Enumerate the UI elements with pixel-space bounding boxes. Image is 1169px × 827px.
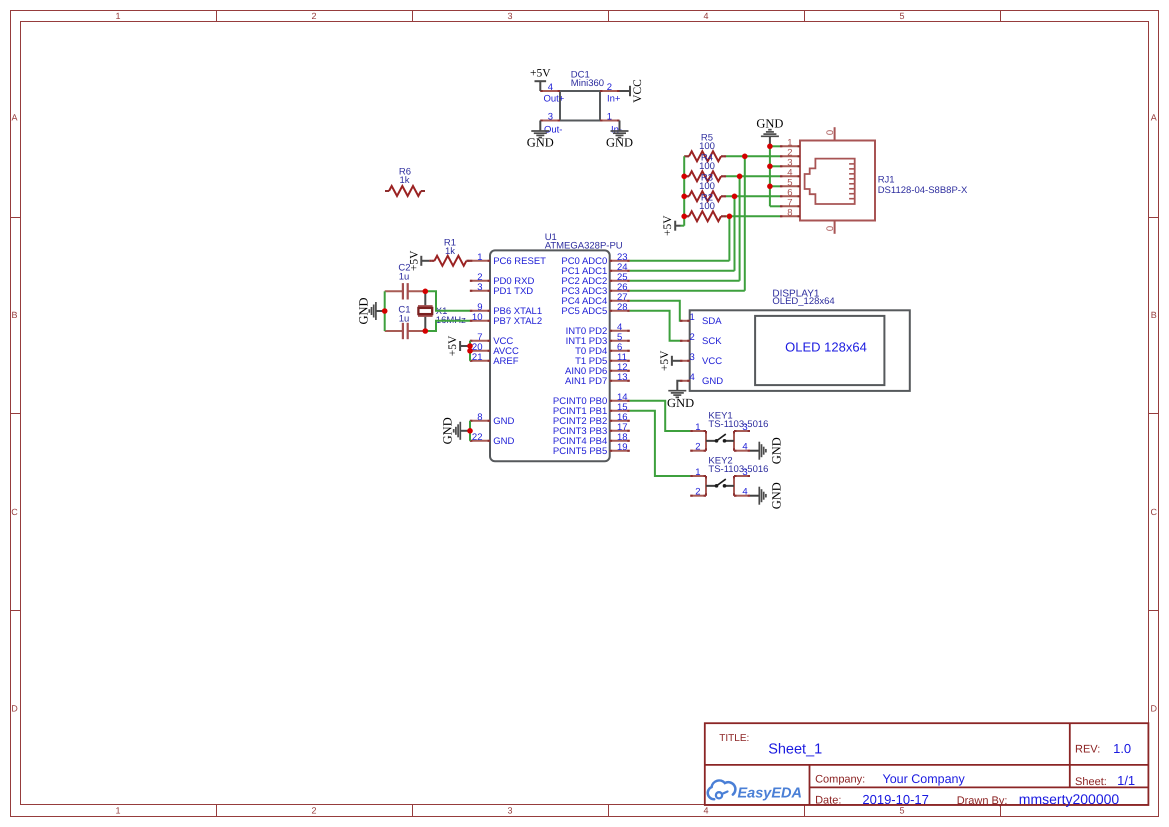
U1 pin 19 PCINT5 PB5	[553, 442, 630, 457]
svg-text:1: 1	[690, 312, 695, 323]
svg-text:22: 22	[472, 432, 483, 443]
svg-text:GND: GND	[770, 482, 784, 509]
ground at C1/C2 left	[356, 297, 384, 324]
svg-text:EasyEDA: EasyEDA	[738, 786, 802, 802]
U1 pin 24 PC1 ADC1	[561, 262, 629, 277]
title block	[705, 723, 1149, 807]
svg-text:5: 5	[899, 11, 904, 21]
svg-text:Mini360: Mini360	[571, 78, 604, 89]
svg-text:SCK: SCK	[702, 336, 722, 347]
wire from U1 pin 24	[630, 270, 735, 272]
svg-text:1: 1	[115, 11, 120, 21]
ground above RJ1	[756, 117, 783, 147]
wire crystal bottom to U1 pin 10	[425, 321, 470, 331]
svg-text:0: 0	[825, 226, 836, 231]
svg-text:1: 1	[695, 422, 700, 433]
U1 pin 21 AREF	[470, 352, 519, 367]
svg-text:AIN1 PD7: AIN1 PD7	[565, 376, 607, 387]
svg-text:8: 8	[787, 208, 792, 219]
U1 pin 9 PB6 XTAL1	[470, 302, 542, 317]
wire from U1 pin 25	[630, 280, 740, 282]
U1 pin 26 PC3 ADC3	[561, 282, 629, 297]
wire R3 to RJ1 pin 6	[726, 195, 780, 197]
ground at KEY2 pin 4	[750, 482, 784, 509]
+5V power flag at resistor bank	[662, 215, 680, 236]
svg-text:VCC: VCC	[702, 356, 722, 367]
wire U1 pin 28 to OLED SCK	[630, 311, 680, 341]
svg-text:D: D	[11, 704, 18, 714]
wire vertical RJ1 pin8 net to U1 pin 23	[728, 216, 730, 260]
svg-text:+5V: +5V	[662, 215, 674, 236]
ground at OLED GND	[667, 381, 694, 410]
wire U1 pin 27 to OLED SDA	[630, 301, 680, 321]
svg-text:REV:: REV:	[1075, 743, 1100, 755]
svg-text:D: D	[1151, 704, 1158, 714]
wire R5 to RJ1 pin 2	[726, 155, 780, 157]
svg-text:GND: GND	[770, 437, 784, 464]
svg-text:GND: GND	[441, 417, 455, 444]
svg-text:2: 2	[607, 82, 612, 93]
svg-text:3: 3	[477, 282, 482, 293]
svg-text:2: 2	[690, 332, 695, 343]
junction dot R2 left	[681, 214, 687, 220]
svg-text:3: 3	[548, 111, 553, 122]
svg-text:10: 10	[472, 312, 483, 323]
svg-text:PB7 XTAL2: PB7 XTAL2	[493, 316, 542, 327]
svg-text:GND: GND	[527, 136, 554, 150]
svg-text:1/1: 1/1	[1117, 773, 1135, 788]
+5V power flag at DC1 pin 4	[530, 68, 551, 91]
U1 pin 17 PCINT3 PB3	[553, 422, 630, 437]
svg-text:1.0: 1.0	[1113, 741, 1131, 756]
pushbutton KEY2 TS-1103-5016	[690, 455, 768, 497]
svg-text:1: 1	[115, 806, 120, 816]
svg-text:DS1128-04-S8B8P-X: DS1128-04-S8B8P-X	[878, 185, 968, 196]
wire from U1 pin 23	[630, 260, 730, 262]
capacitor C2 1u	[385, 262, 426, 299]
U1 pin 10 PB7 XTAL2	[470, 312, 542, 327]
junction dot R2 out	[727, 214, 733, 220]
+5V power flag at OLED VCC	[659, 350, 680, 371]
junction dot R5 out	[742, 154, 748, 160]
svg-text:GND: GND	[667, 396, 694, 410]
U1 pin 20 AVCC	[470, 342, 519, 357]
svg-text:1u: 1u	[399, 313, 410, 324]
resistor R2 100	[684, 192, 726, 221]
svg-text:GND: GND	[493, 416, 514, 427]
U1 pin 22 GND	[470, 432, 515, 447]
svg-text:TITLE:: TITLE:	[719, 733, 749, 744]
svg-text:Company:: Company:	[815, 773, 865, 785]
svg-text:4: 4	[742, 487, 747, 498]
wire +5V bus left of resistor bank	[683, 156, 685, 225]
svg-text:2: 2	[311, 806, 316, 816]
svg-text:C: C	[11, 507, 18, 517]
wire vertical RJ1 pin4 net to U1 pin 25	[739, 176, 741, 280]
U1 pin 12 AIN0 PD6	[565, 362, 630, 377]
VCC power flag at DC1 pin 2	[620, 79, 645, 103]
capacitor C1 1u	[385, 304, 426, 339]
svg-text:mmserty200000: mmserty200000	[1019, 791, 1120, 807]
wire vertical RJ1 pin6 net to U1 pin 24	[734, 196, 736, 270]
U1 pin 16 PCINT2 PB2	[553, 412, 630, 427]
svg-text:AREF: AREF	[493, 356, 519, 367]
svg-text:OLED_128x64: OLED_128x64	[772, 296, 834, 307]
svg-text:8: 8	[477, 412, 482, 423]
svg-text:3: 3	[507, 806, 512, 816]
svg-text:100: 100	[699, 141, 715, 152]
junction dot R3 out	[732, 194, 738, 200]
svg-text:1: 1	[477, 252, 482, 263]
svg-text:Date:: Date:	[815, 794, 841, 806]
svg-text:OLED 128x64: OLED 128x64	[785, 340, 867, 355]
svg-text:GND: GND	[493, 436, 514, 447]
junction dot U1 +5V	[467, 343, 473, 349]
+5V power flag at R1	[408, 250, 429, 271]
wire vertical RJ1 pin2 net to U1 pin 26	[744, 156, 746, 290]
svg-text:19: 19	[617, 442, 628, 453]
junction dot U1 GND	[467, 428, 473, 434]
svg-text:0: 0	[825, 130, 836, 135]
svg-text:TS-1103-5016: TS-1103-5016	[708, 419, 768, 430]
U1 pin 15 PCINT1 PB1	[553, 402, 630, 417]
svg-text:4: 4	[690, 372, 695, 383]
wire from U1 pin 26	[630, 290, 745, 292]
svg-text:1k: 1k	[399, 175, 409, 186]
svg-text:21: 21	[472, 352, 483, 363]
U1 pin 1 PC6 RESET	[470, 252, 546, 267]
svg-text:TS-1103-5016: TS-1103-5016	[708, 464, 768, 475]
resistor R5 100	[684, 132, 726, 161]
wire U1 VCC/AVCC/AREF vertical	[469, 341, 471, 361]
U1 pin 18 PCINT4 PB4	[553, 432, 630, 447]
+5V power flag at U1 pins 7/20/21	[447, 335, 470, 356]
svg-text:100: 100	[699, 161, 715, 172]
ground at DC1 pin 1	[606, 121, 633, 150]
svg-text:PC6 RESET: PC6 RESET	[493, 256, 546, 267]
svg-text:1: 1	[695, 467, 700, 478]
junction dot GND pin1	[767, 144, 773, 150]
wire U1 pin 14 to KEY1	[630, 401, 691, 431]
junction dot R4 out	[737, 174, 743, 180]
U1 pin 8 GND	[470, 412, 515, 427]
svg-text:Drawn By:: Drawn By:	[957, 795, 1008, 807]
pushbutton KEY1 TS-1103-5016	[690, 410, 768, 452]
svg-text:Sheet:: Sheet:	[1075, 776, 1107, 788]
resistor R4 100	[684, 152, 726, 181]
svg-text:GND: GND	[756, 117, 783, 131]
EasyEDA logo	[708, 780, 802, 801]
wire R2 to RJ1 pin 8	[726, 215, 780, 217]
U1 pin 23 PC0 ADC0	[561, 252, 629, 267]
svg-text:2: 2	[695, 487, 700, 498]
svg-text:100: 100	[699, 201, 715, 212]
microcontroller U1 ATMEGA328P-PU	[490, 232, 623, 461]
U1 pin 2 PD0 RXD	[470, 272, 535, 287]
svg-text:4: 4	[703, 806, 708, 816]
svg-text:3: 3	[690, 352, 695, 363]
wire R4 to RJ1 pin 4	[726, 175, 780, 177]
svg-text:+5V: +5V	[659, 350, 671, 371]
U1 pin 7 VCC	[470, 332, 513, 347]
U1 pin 11 T1 PD5	[575, 352, 630, 367]
U1 pin 5 INT1 PD3	[566, 332, 630, 347]
junction dot U1 AVCC	[467, 348, 473, 354]
svg-text:Sheet_1: Sheet_1	[768, 742, 822, 758]
ground at KEY1 pin 4	[750, 437, 784, 464]
wire C2/C1 left vertical	[384, 291, 386, 331]
junction dot GND pin5	[767, 184, 773, 190]
svg-text:In+: In+	[607, 93, 621, 104]
junction dot R3 left	[681, 194, 687, 200]
connector RJ1 DS1128-04-S8B8P-X	[780, 127, 968, 234]
svg-text:28: 28	[617, 302, 628, 313]
U1 pin 3 PD1 TXD	[470, 282, 533, 297]
svg-text:Your Company: Your Company	[883, 772, 966, 786]
svg-text:SDA: SDA	[702, 316, 722, 327]
U1 pin 27 PC4 ADC4	[561, 292, 629, 307]
wire U1 pin 15 to KEY2	[630, 411, 691, 476]
U1 pin 13 AIN1 PD7	[565, 372, 630, 387]
resistor R1 1k	[429, 238, 470, 266]
U1 pin 4 INT0 PD2	[566, 322, 630, 337]
wire crystal top to U1 pin 9	[425, 291, 470, 311]
U1 pin 25 PC2 ADC2	[561, 272, 629, 287]
svg-text:1u: 1u	[399, 271, 410, 282]
svg-text:5: 5	[899, 806, 904, 816]
U1 pin 6 T0 PD4	[575, 342, 630, 357]
svg-text:A: A	[11, 113, 17, 123]
junction dot crystal bottom	[423, 328, 429, 334]
svg-text:A: A	[1151, 113, 1157, 123]
U1 pin 28 PC5 ADC5	[561, 302, 629, 317]
junction dot GND pin3	[767, 164, 773, 170]
wire GND bus left of RJ1	[769, 146, 771, 206]
svg-text:1k: 1k	[445, 246, 455, 257]
svg-text:PD1 TXD: PD1 TXD	[493, 286, 533, 297]
junction dot R4 left	[681, 174, 687, 180]
U1 pin 14 PCINT0 PB0	[553, 392, 630, 407]
svg-text:B: B	[11, 310, 17, 320]
svg-text:B: B	[1151, 310, 1157, 320]
resistor R3 100	[684, 172, 726, 201]
svg-text:PC5 ADC5: PC5 ADC5	[561, 306, 607, 317]
svg-text:13: 13	[617, 372, 628, 383]
svg-text:ATMEGA328P-PU: ATMEGA328P-PU	[545, 240, 623, 251]
wire GND to RJ1 pin 7	[770, 205, 780, 207]
junction dot C-left	[382, 308, 388, 314]
svg-text:2: 2	[311, 11, 316, 21]
ground at U1 pins 8/22	[441, 417, 470, 444]
wire GND to RJ1 pin 1	[770, 145, 780, 147]
wire GND to RJ1 pin 5	[770, 185, 780, 187]
svg-text:+5V: +5V	[530, 68, 551, 80]
svg-text:4: 4	[742, 442, 747, 453]
svg-text:3: 3	[507, 11, 512, 21]
crystal X1 16MHz	[418, 291, 466, 331]
svg-text:Out+: Out+	[544, 93, 565, 104]
svg-text:100: 100	[699, 181, 715, 192]
svg-text:VCC: VCC	[632, 79, 644, 103]
svg-text:2: 2	[695, 442, 700, 453]
svg-text:GND: GND	[356, 297, 370, 324]
display module DISPLAY1 OLED_128x64	[680, 289, 910, 391]
wire GND to RJ1 pin 3	[770, 165, 780, 167]
svg-text:+5V: +5V	[447, 335, 459, 356]
svg-text:GND: GND	[702, 376, 723, 387]
svg-text:2019-10-17: 2019-10-17	[862, 792, 929, 807]
ground at DC1 pin 3	[527, 121, 554, 150]
wire +5V corner at resistor bank	[681, 225, 685, 227]
svg-text:C: C	[1151, 507, 1158, 517]
svg-text:PCINT5 PB5: PCINT5 PB5	[553, 446, 607, 457]
junction dot crystal top	[423, 289, 429, 295]
resistor R6 1k (floating)	[385, 167, 425, 197]
voltage regulator DC1 Mini360	[540, 70, 622, 136]
svg-text:4: 4	[548, 82, 553, 93]
svg-text:GND: GND	[606, 136, 633, 150]
wire U1 GND vertical	[469, 421, 471, 441]
svg-text:4: 4	[703, 11, 708, 21]
svg-text:1: 1	[607, 111, 612, 122]
